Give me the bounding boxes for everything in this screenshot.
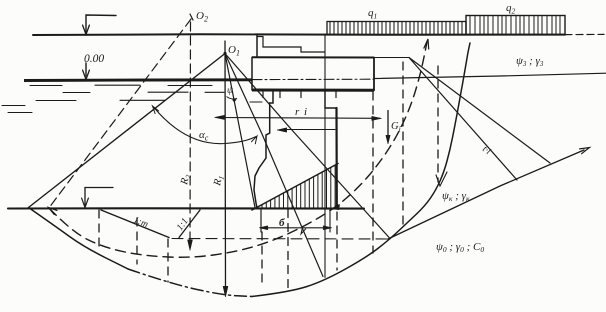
wedge line upper	[409, 58, 550, 164]
cap top extension line	[374, 57, 409, 59]
cap slab top edge	[252, 56, 374, 58]
svg-text:r i: r i	[295, 106, 308, 118]
small arrowhead on ray A	[301, 227, 306, 234]
alpha_c arc left arrowhead	[153, 106, 159, 114]
small tick at slice 438 end	[436, 172, 447, 186]
dredge bottom / base line	[8, 207, 364, 209]
wedge line lower	[409, 58, 517, 181]
vertical R1 line from O1	[224, 41, 227, 290]
wall stem right face upper	[325, 91, 337, 109]
surcharge load q2 hatched strip	[466, 16, 565, 35]
layer boundary arrowhead	[580, 148, 590, 154]
vertical R2 dashed line from O2	[189, 22, 192, 243]
radius ray to left slip-circle end	[29, 54, 226, 208]
alpha_c arc right arrowhead	[251, 136, 257, 144]
ground surface line (cordon level)	[33, 33, 565, 36]
cap slab bottom thick edge	[252, 89, 374, 92]
level mark top-left: bracket	[86, 15, 116, 33]
superstructure front face	[256, 35, 258, 58]
angle psi arc with arrowhead	[227, 97, 237, 99]
ground surface dashed continuation right	[565, 33, 604, 35]
slice boundary dashed vertical 1 at x=99	[98, 210, 100, 246]
b-dimension extension solid left	[260, 209, 262, 232]
water level thick line	[24, 78, 252, 82]
long vertical through wall step corner	[324, 35, 326, 278]
slope line 1:m	[101, 210, 169, 238]
ground/water line right of wall	[374, 73, 606, 78]
r_i left arrowhead	[215, 115, 225, 119]
pressure diagram vertical hatching	[262, 165, 335, 208]
level mark at dredge line	[85, 188, 113, 206]
cap slab right edge	[373, 58, 375, 91]
center O1 dot	[223, 52, 226, 55]
b right arrowhead	[323, 226, 332, 230]
dimension line b	[261, 227, 330, 229]
svg-text:б: б	[279, 217, 285, 229]
svg-text:0.00: 0.00	[84, 53, 104, 65]
slice boundary dashed vertical 3 at x=168	[167, 239, 169, 282]
r_i right arrowhead	[372, 116, 382, 120]
dashed radius from O2 to slip surface start	[50, 19, 191, 207]
layer boundary rising line	[388, 150, 584, 239]
tick marks under cap	[262, 91, 264, 98]
slip circle 2 dashed arc	[49, 42, 427, 257]
R2 arrowhead	[188, 240, 193, 251]
slip circle 2 end arrowhead	[424, 39, 429, 49]
arrow at wall back face	[287, 129, 335, 131]
slip circle 1 arc bottom dash-dot	[128, 269, 252, 297]
dimension line r_i	[216, 117, 380, 120]
b left arrowhead	[259, 226, 268, 230]
radius ray B to layer boundary point	[225, 54, 390, 239]
level mark 0.00: vertical with arrow	[85, 63, 87, 76]
layer boundary dashed horizontal	[172, 238, 388, 241]
slip circle 1 arc left solid	[29, 208, 129, 270]
pressure diagram hypotenuse	[252, 164, 338, 211]
radius ray to wall front bottom corner	[225, 54, 255, 208]
slice boundary dashed vertical 5 at x=288	[287, 210, 289, 294]
junction blob at wall heel	[332, 204, 340, 210]
slice boundary dashed vertical 7 at x=373	[372, 92, 374, 253]
angle alpha_c arc	[154, 107, 257, 144]
slice boundary dashed vertical 8 at x=403	[402, 62, 404, 230]
slope line 1:1	[179, 210, 200, 238]
water surface short dashes	[2, 85, 262, 112]
slice boundary dashed vertical 4 at x=262	[261, 232, 263, 288]
surcharge load q1 hatched strip	[327, 22, 466, 35]
radius ray A through wall to circle	[225, 54, 323, 277]
b right extension	[329, 209, 331, 232]
R1 arrowhead	[223, 286, 228, 297]
cap slab left edge	[251, 57, 253, 90]
svg-text:ψ3 ; γ3: ψ3 ; γ3	[516, 55, 544, 68]
water level dash-dot across wall	[252, 78, 374, 80]
wall stem back face thick	[335, 108, 337, 209]
slice boundary dashed vertical 9 at x=438	[437, 66, 439, 182]
center O2 tick	[190, 14, 193, 20]
superstructure parapet steps	[257, 37, 325, 53]
slice boundary dashed vertical 6 at x=337	[336, 212, 338, 270]
slip circle 1 arc right solid	[252, 43, 470, 297]
wall stem left face stepped	[254, 91, 273, 209]
svg-text:ψκ ; γκ: ψκ ; γκ	[442, 190, 470, 203]
slice boundary dashed vertical 2 at x=137	[136, 218, 138, 264]
force G_i arrow	[387, 111, 389, 139]
